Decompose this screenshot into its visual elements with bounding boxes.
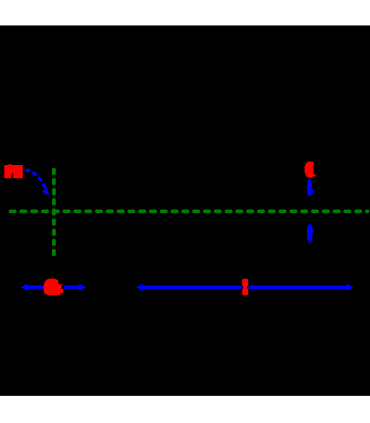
upper blue mini arrow (above axis, x~310) bbox=[307, 179, 313, 196]
green dashed vertical line bbox=[52, 170, 56, 255]
red tick label on right arrow bbox=[242, 279, 248, 296]
blue dashed curved arrow (from M to axes cross) bbox=[27, 170, 50, 195]
bottom-left blue double arrow bbox=[21, 284, 87, 291]
green dashed horizontal axis bbox=[11, 209, 368, 213]
label d (red) bbox=[305, 162, 316, 178]
label a (red) bbox=[43, 279, 63, 296]
label M (red) bbox=[4, 164, 23, 178]
bottom-right blue double arrow bbox=[136, 284, 354, 291]
lower blue mini arrow (below axis, x~310) bbox=[307, 224, 314, 243]
